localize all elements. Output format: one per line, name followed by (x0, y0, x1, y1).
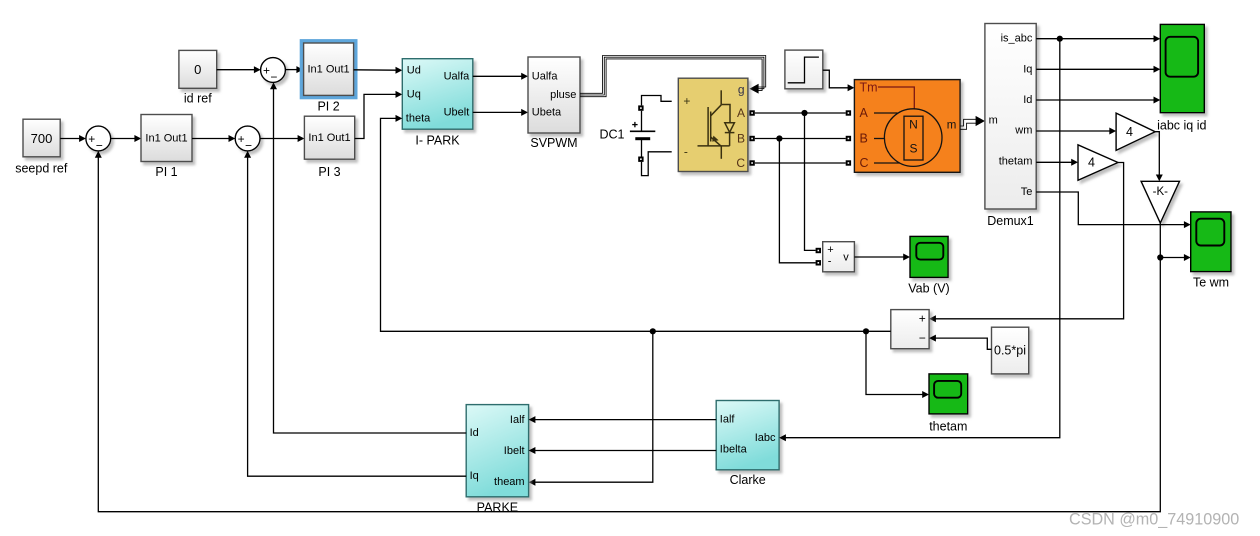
DC voltage source DC1 (599, 122, 655, 141)
svg-text:−: − (96, 139, 103, 153)
angle sum block (+ -) (891, 310, 929, 349)
subsystem Clarke (716, 401, 779, 487)
svg-text:700: 700 (31, 131, 53, 146)
constant block 700 (seepd ref) (15, 119, 68, 175)
svg-text:Id: Id (1023, 94, 1032, 106)
PMSM motor block (orange) (854, 80, 960, 173)
wire gain 4 to gain -K- (1155, 132, 1163, 182)
wire PI 2 to I-PARK Ud (354, 67, 403, 74)
svg-text:S: S (909, 142, 917, 156)
wire 0.5*pi to angle sum - (929, 335, 991, 350)
svg-text:+: + (88, 132, 95, 146)
svg-text:Demux1: Demux1 (987, 214, 1034, 228)
svg-text:thetam: thetam (999, 155, 1033, 167)
wire step to motor Tm (823, 70, 855, 91)
scope thetam (929, 374, 968, 434)
wire theta net: sum output to I-PARK theta (381, 115, 891, 331)
wire DC1 minus terminal to inverter - (638, 139, 672, 176)
svg-text:Ubeta: Ubeta (532, 106, 562, 118)
svg-text:-: - (828, 256, 832, 268)
Demux1 block (985, 24, 1036, 228)
subsystem PI 2 (selected, blue highlight) (301, 41, 355, 114)
subsystem I- PARK (402, 59, 473, 148)
svg-text:Vab (V): Vab (V) (908, 281, 949, 295)
constant block 0 (id ref) (179, 50, 217, 105)
wire PI 3 to I-PARK Uq (355, 91, 403, 139)
watermark (1069, 511, 1239, 529)
scope iabc iq id (1157, 24, 1206, 132)
svg-text:Iabc: Iabc (755, 432, 776, 444)
constant 0.5*pi (992, 327, 1029, 374)
wire phase A tap to voltage measure + (805, 113, 816, 250)
wire Demux Te to scope Te wm (1036, 192, 1191, 228)
svg-text:wm: wm (1014, 125, 1032, 137)
svg-text:theam: theam (494, 476, 525, 488)
bus wire motor m to Demux1 (double step line) (960, 116, 985, 129)
svg-text:In1 Out1: In1 Out1 (308, 132, 350, 144)
svg-text:SVPWM: SVPWM (530, 136, 577, 150)
gain -K- (down-pointing) (1141, 181, 1179, 223)
wire Clarke Ibelta to PARKE Ibelt (529, 447, 717, 454)
wire inverter B to motor B (755, 138, 846, 140)
svg-text:m: m (947, 119, 957, 131)
svg-text:PI 2: PI 2 (317, 100, 339, 114)
svg-text:0.5*pi: 0.5*pi (994, 344, 1026, 358)
svg-text:+: + (238, 132, 245, 146)
wire PARKE Id to sum S3 (270, 82, 466, 433)
wire Demux Iq to scope (1036, 66, 1160, 73)
subsystem SVPWM (528, 57, 580, 150)
wire 0 to S3 (217, 66, 261, 73)
svg-text:I- PARK: I- PARK (415, 133, 460, 147)
svg-text:v: v (843, 252, 849, 264)
svg-text:Ibelta: Ibelta (720, 443, 748, 455)
node theta branch to PARKE (650, 328, 656, 334)
subsystem PARKE (466, 405, 528, 515)
inverter bridge U1 (yellow block) (678, 78, 748, 171)
svg-text:Ualfa: Ualfa (444, 70, 471, 82)
svg-text:−: − (245, 139, 252, 153)
svg-text:A: A (860, 106, 869, 120)
wire theta to thetam scope (866, 331, 929, 398)
wire S3 to PI 2 (285, 66, 303, 73)
svg-text:Uq: Uq (407, 88, 421, 100)
scope Te wm (1191, 212, 1231, 289)
svg-text:DC1: DC1 (599, 127, 624, 141)
node on phase B (776, 135, 782, 141)
svg-text:Clarke: Clarke (730, 473, 766, 487)
subsystem PI 3 (304, 116, 354, 179)
svg-text:4: 4 (1126, 125, 1133, 139)
wire S1 to PI 1 (111, 135, 142, 142)
svg-text:Ibelt: Ibelt (504, 445, 525, 457)
svg-text:+: + (263, 64, 270, 78)
svg-text:Ualfa: Ualfa (532, 70, 559, 82)
svg-text:PARKE: PARKE (477, 501, 518, 515)
svg-text:Tm: Tm (860, 81, 878, 95)
wire 700 to speed sum (60, 135, 86, 142)
wire Demux wm to gain 4 (1036, 128, 1116, 135)
svg-text:4: 4 (1088, 156, 1095, 170)
svg-text:+: + (683, 94, 690, 108)
svg-text:id ref: id ref (184, 92, 212, 106)
step source block (785, 50, 823, 89)
wire -K- output / speed feedback (95, 151, 1161, 512)
wire S2 to PI 3 (260, 135, 304, 142)
wire I-PARK Ubelt to SVPWM Ubeta (473, 109, 528, 116)
svg-text:Te wm: Te wm (1193, 275, 1229, 289)
inverter output port squares A B C (749, 110, 754, 165)
wire Demux Id to scope (1036, 97, 1160, 104)
svg-text:+: + (919, 311, 926, 325)
wire Demux is_abc to scope (1036, 35, 1160, 42)
node on phase A (801, 110, 807, 116)
svg-text:Ialf: Ialf (510, 414, 526, 426)
svg-text:0: 0 (194, 62, 201, 77)
svg-text:PI 1: PI 1 (155, 165, 177, 179)
motor input port squares A B C (846, 110, 851, 165)
svg-text:seepd ref: seepd ref (15, 162, 68, 176)
sum junction S3 (id error) (261, 58, 286, 85)
svg-text:theta: theta (406, 112, 431, 124)
inverter IGBT and diode icon (698, 90, 735, 159)
svg-text:In1 Out1: In1 Out1 (307, 63, 349, 75)
bus wire SVPWM pluse to inverter g (3-line bundle) (580, 56, 766, 97)
svg-text:is_abc: is_abc (1001, 33, 1033, 45)
svg-text:In1 Out1: In1 Out1 (145, 132, 187, 144)
wire inverter A to motor A (755, 112, 846, 114)
wire inverter C to motor C (755, 162, 846, 164)
sum junction S2 (iq error) (235, 126, 260, 153)
subsystem PI 1 (141, 115, 192, 179)
wire I-PARK Ualfa to SVPWM Ualfa (473, 73, 528, 80)
wire phase B tap to voltage measure - (779, 139, 815, 263)
wire theta to PARKE theam (529, 331, 653, 485)
svg-text:Ubelt: Ubelt (444, 106, 470, 118)
wire PARKE Iq to sum S2 (244, 151, 466, 476)
wire DC1 plus terminal to inverter + (638, 96, 672, 132)
svg-text:Id: Id (470, 427, 479, 439)
svg-text:−: − (919, 331, 926, 345)
node on -K- feedback (1157, 254, 1163, 260)
wire Demux thetam to gain 4 (1036, 159, 1078, 166)
wire node to scope Te wm input 2 (1160, 254, 1190, 261)
svg-text:+: + (827, 244, 833, 256)
svg-text:B: B (860, 132, 868, 146)
sum junction S1 (speed error) (86, 126, 111, 153)
gain 4 (wm) (1116, 113, 1155, 150)
node theta branch to thetam scope (863, 328, 869, 334)
svg-text:B: B (737, 132, 745, 146)
voltage measurement block Vab (823, 242, 855, 272)
svg-text:Iq: Iq (1023, 63, 1032, 75)
svg-text:Iq: Iq (470, 470, 479, 482)
scope Vab (V) (908, 236, 949, 295)
svg-text:m: m (989, 115, 998, 127)
node on is_abc (1057, 36, 1063, 42)
svg-text:A: A (737, 106, 745, 120)
svg-text:C: C (736, 156, 745, 170)
wire Vab to scope (854, 254, 910, 261)
svg-text:Ud: Ud (407, 64, 421, 76)
svg-text:pluse: pluse (550, 89, 576, 101)
svg-text:Ialf: Ialf (720, 413, 736, 425)
svg-text:−: − (270, 70, 277, 84)
svg-text:N: N (909, 118, 918, 132)
wire PI 1 to S2 (192, 135, 235, 142)
svg-text:-: - (684, 144, 688, 158)
Vab input port squares (816, 248, 821, 266)
svg-text:g: g (738, 82, 745, 96)
wire gain 4 thetam to angle sum + (929, 163, 1124, 323)
svg-text:iabc iq id: iabc iq id (1157, 119, 1206, 133)
wire is_abc feedback to Clarke Iabc (779, 39, 1060, 442)
svg-text:PI 3: PI 3 (318, 165, 340, 179)
svg-text:-K-: -K- (1153, 186, 1169, 198)
svg-text:thetam: thetam (929, 420, 967, 434)
wire Clarke Ialf to PARKE Ialf (529, 416, 717, 423)
svg-text:CSDN @m0_74910900: CSDN @m0_74910900 (1069, 511, 1239, 529)
gain 4 (thetam) (1078, 145, 1118, 181)
svg-text:Te: Te (1021, 186, 1033, 198)
svg-text:C: C (860, 156, 869, 170)
